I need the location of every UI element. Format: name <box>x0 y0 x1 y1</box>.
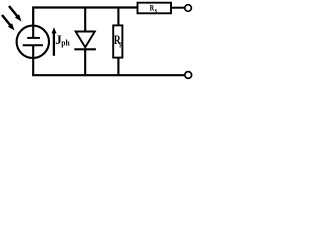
photocurrent source circle <box>17 26 49 58</box>
light arrow lower <box>2 15 15 31</box>
svg-text:R: R <box>150 2 155 12</box>
resistor Rs <box>138 3 172 14</box>
resistor Rp <box>113 8 122 76</box>
wire top rail <box>33 8 137 26</box>
svg-text:s: s <box>155 6 157 15</box>
wire bottom rail <box>32 74 184 76</box>
source top plate <box>27 26 40 38</box>
svg-text:ph: ph <box>61 39 70 48</box>
current arrow Jph <box>52 27 57 56</box>
diode D <box>74 8 96 76</box>
svg-text:p: p <box>119 41 122 49</box>
source bottom plate <box>23 45 43 75</box>
wire Rs to terminal <box>171 7 184 9</box>
terminal top <box>185 5 192 12</box>
light arrow upper <box>9 6 22 22</box>
terminal bottom <box>185 72 192 79</box>
